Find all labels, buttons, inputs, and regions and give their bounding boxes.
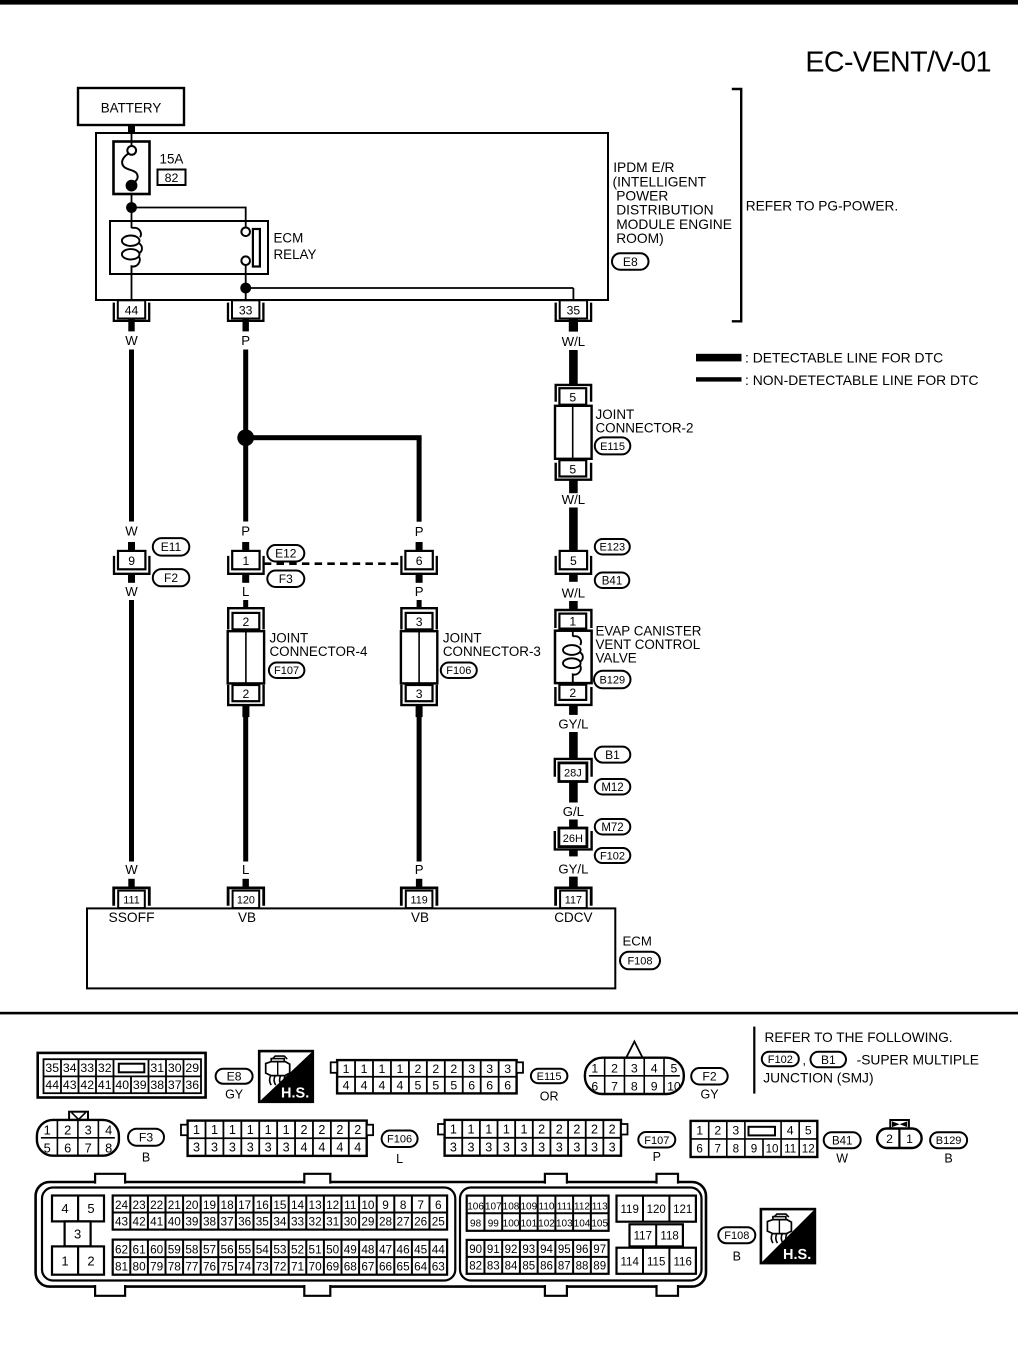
svg-text:F3: F3 <box>139 1131 153 1145</box>
svg-text:32: 32 <box>309 1214 322 1228</box>
svg-text:6: 6 <box>591 1079 598 1093</box>
svg-text:38: 38 <box>203 1214 217 1228</box>
svg-text:F102: F102 <box>768 1054 793 1066</box>
svg-text:2: 2 <box>556 1122 563 1136</box>
svg-text:6: 6 <box>504 1079 511 1093</box>
svg-text:3: 3 <box>468 1140 475 1154</box>
svg-text:118: 118 <box>660 1231 678 1243</box>
svg-text:95: 95 <box>558 1244 571 1256</box>
top border bar <box>0 0 1018 5</box>
stub below connector 5 <box>569 574 578 582</box>
svg-text:70: 70 <box>309 1259 323 1273</box>
svg-text:50: 50 <box>326 1242 340 1256</box>
svg-text:106: 106 <box>467 1201 484 1212</box>
svg-text:107: 107 <box>485 1201 502 1212</box>
svg-text:82: 82 <box>165 171 179 185</box>
joint connector-4 <box>228 608 264 705</box>
svg-text:110: 110 <box>539 1201 555 1212</box>
svg-text:B1: B1 <box>821 1053 836 1067</box>
svg-text:38: 38 <box>150 1078 164 1092</box>
stub below connector 9 <box>128 574 135 583</box>
svg-text:6: 6 <box>486 1079 493 1093</box>
svg-text:71: 71 <box>291 1259 304 1273</box>
svg-text:M12: M12 <box>601 782 623 794</box>
svg-text:BATTERY: BATTERY <box>101 101 162 116</box>
svg-text:13: 13 <box>309 1198 323 1212</box>
svg-text:M72: M72 <box>601 822 623 834</box>
svg-text:1: 1 <box>450 1122 457 1136</box>
svg-text:45: 45 <box>414 1242 428 1256</box>
svg-text:IPDM E/R: IPDM E/R <box>613 160 674 175</box>
svg-text:17: 17 <box>238 1198 251 1212</box>
svg-text:14: 14 <box>291 1198 305 1212</box>
svg-text:41: 41 <box>98 1078 112 1092</box>
svg-text:2: 2 <box>611 1061 618 1075</box>
svg-text:1: 1 <box>247 1123 254 1137</box>
connector ref E115 <box>595 437 631 454</box>
junction dot below fuse <box>126 202 137 213</box>
svg-text:E8: E8 <box>623 255 638 269</box>
svg-text:6: 6 <box>435 1198 442 1212</box>
ECM view grid 62-44 / 81-63 <box>113 1240 447 1275</box>
svg-text:120: 120 <box>237 895 255 907</box>
svg-text:5: 5 <box>570 554 577 568</box>
svg-text:CONNECTOR-4: CONNECTOR-4 <box>270 644 369 659</box>
connector ref F2 <box>153 569 190 586</box>
wire P col2 upper <box>243 350 248 522</box>
pin 35 (IPDM) <box>556 300 591 331</box>
svg-text:47: 47 <box>379 1242 392 1256</box>
svg-text:8: 8 <box>105 1140 112 1155</box>
svg-text:34: 34 <box>63 1061 77 1075</box>
svg-text:2: 2 <box>569 686 576 700</box>
svg-text:51: 51 <box>309 1242 322 1256</box>
stub below connector 6 <box>416 574 423 583</box>
refer bracket <box>732 89 741 321</box>
svg-text:10: 10 <box>667 1079 681 1093</box>
svg-text:16: 16 <box>256 1198 270 1212</box>
svg-text:W: W <box>125 862 138 877</box>
stub below JC-4 <box>242 705 249 717</box>
svg-text:2: 2 <box>243 615 250 629</box>
connector ref F107 (view) <box>638 1132 675 1148</box>
svg-text:4: 4 <box>336 1141 343 1155</box>
svg-text:44: 44 <box>432 1242 446 1256</box>
svg-text:64: 64 <box>414 1259 428 1273</box>
svg-text:59: 59 <box>168 1242 181 1256</box>
svg-text:E123: E123 <box>599 542 625 554</box>
svg-text:121: 121 <box>673 1204 692 1216</box>
svg-text:35: 35 <box>256 1214 270 1228</box>
svg-text:113: 113 <box>592 1201 608 1212</box>
pin 119 (ECM) <box>401 888 437 908</box>
svg-text:W/L: W/L <box>562 586 585 601</box>
relay coil <box>122 221 142 274</box>
wire G/L col4 <box>569 820 578 829</box>
svg-text:2: 2 <box>714 1123 721 1137</box>
pin 120 (ECM) <box>228 888 264 908</box>
svg-text:5: 5 <box>450 1079 457 1093</box>
svg-text:H.S.: H.S. <box>783 1247 811 1263</box>
ECM view grid 90-97 / 82-89 <box>467 1240 609 1274</box>
svg-text:53: 53 <box>273 1242 287 1256</box>
svg-text:25: 25 <box>432 1214 446 1228</box>
svg-text:7: 7 <box>611 1079 618 1093</box>
fuse 15A 82 <box>114 142 150 195</box>
svg-text:30: 30 <box>344 1214 358 1228</box>
connector view B129 (2-pin) <box>877 1120 922 1148</box>
svg-text:F108: F108 <box>627 955 652 967</box>
svg-text:7: 7 <box>85 1140 92 1155</box>
svg-text:1: 1 <box>503 1122 510 1136</box>
stub below 28J <box>569 782 578 803</box>
svg-text:48: 48 <box>361 1242 375 1256</box>
svg-text:GY/L: GY/L <box>558 862 588 877</box>
svg-text:5: 5 <box>87 1201 94 1216</box>
svg-text:3: 3 <box>732 1123 739 1137</box>
wire P col3 <box>417 600 422 608</box>
svg-text:CONNECTOR-3: CONNECTOR-3 <box>443 644 541 659</box>
svg-text:66: 66 <box>379 1259 393 1273</box>
evap canister vent control valve <box>555 610 592 705</box>
svg-text:3: 3 <box>74 1227 81 1242</box>
svg-text:W/L: W/L <box>562 334 585 349</box>
svg-text:P: P <box>415 584 424 599</box>
connector ref F3 <box>267 571 304 588</box>
svg-text:94: 94 <box>540 1244 553 1256</box>
svg-text:4: 4 <box>105 1122 112 1137</box>
svg-text:1: 1 <box>229 1123 236 1137</box>
svg-text:96: 96 <box>576 1244 589 1256</box>
svg-text:1: 1 <box>243 554 250 568</box>
connector ref E8 (IPDM) <box>612 253 649 270</box>
svg-text:P: P <box>241 333 250 348</box>
svg-text:3: 3 <box>283 1141 290 1155</box>
svg-text:12: 12 <box>802 1143 815 1156</box>
connector view F106 grid <box>181 1121 373 1156</box>
pin 33 (IPDM) <box>228 300 263 331</box>
svg-text:100: 100 <box>503 1219 520 1230</box>
svg-text:2: 2 <box>64 1122 71 1137</box>
svg-text:58: 58 <box>185 1242 199 1256</box>
wire fuse to junction <box>131 194 133 207</box>
wire junction to pin 35 <box>246 287 574 289</box>
svg-text:2: 2 <box>336 1123 343 1137</box>
connector ref F102 (smj note) <box>762 1052 799 1067</box>
ECM connector view outer shell <box>36 1182 706 1287</box>
junction dot col2 <box>237 429 254 446</box>
svg-text:79: 79 <box>150 1259 163 1273</box>
stub into connector 1 <box>242 542 249 552</box>
wire GY/L col4 <box>569 732 578 758</box>
connector ref E123 <box>595 539 630 555</box>
ECM view grid 24-6 / 43-25 <box>113 1196 447 1230</box>
svg-text:P: P <box>415 524 424 539</box>
connector ref B1 <box>595 747 631 763</box>
svg-text:56: 56 <box>221 1242 235 1256</box>
svg-text:3: 3 <box>247 1141 254 1155</box>
svg-text:116: 116 <box>674 1256 692 1268</box>
svg-text:23: 23 <box>133 1198 147 1212</box>
svg-text:3: 3 <box>265 1141 272 1155</box>
svg-text:2: 2 <box>886 1132 893 1146</box>
svg-text:61: 61 <box>133 1242 146 1256</box>
svg-text:114: 114 <box>621 1256 640 1268</box>
wire relay contact to pin 33 <box>245 265 247 301</box>
svg-text:43: 43 <box>63 1078 77 1092</box>
stub below valve <box>569 705 578 715</box>
connector ref B41 <box>595 573 630 589</box>
svg-text:36: 36 <box>185 1078 199 1092</box>
svg-text:5: 5 <box>569 462 576 476</box>
connector view E115 grid <box>331 1060 523 1093</box>
svg-text:60: 60 <box>150 1242 164 1256</box>
svg-text:31: 31 <box>326 1214 339 1228</box>
svg-text:104: 104 <box>574 1219 591 1230</box>
svg-text:111: 111 <box>557 1201 573 1212</box>
wire junction to relay contact (branch right) <box>132 207 246 209</box>
svg-text:39: 39 <box>185 1214 198 1228</box>
svg-text:F2: F2 <box>702 1070 716 1084</box>
svg-text:57: 57 <box>203 1242 216 1256</box>
svg-text:-SUPER MULTIPLE: -SUPER MULTIPLE <box>857 1053 979 1068</box>
ECM view left shell <box>42 1188 455 1281</box>
battery <box>78 88 184 125</box>
svg-text:11: 11 <box>784 1143 796 1156</box>
svg-text:3: 3 <box>450 1140 457 1154</box>
svg-text:108: 108 <box>503 1201 520 1212</box>
svg-text:2: 2 <box>414 1062 421 1076</box>
svg-text:3: 3 <box>591 1140 598 1154</box>
svg-text:ECM: ECM <box>623 934 652 949</box>
svg-text:5: 5 <box>805 1123 812 1137</box>
svg-text:W: W <box>125 524 138 539</box>
svg-text:2: 2 <box>301 1123 308 1137</box>
svg-text:1: 1 <box>265 1123 272 1137</box>
svg-text:3: 3 <box>211 1141 218 1155</box>
svg-text:1: 1 <box>379 1062 386 1076</box>
svg-text:3: 3 <box>573 1140 580 1154</box>
svg-text:CDCV: CDCV <box>554 910 592 925</box>
svg-text:E11: E11 <box>161 540 182 554</box>
svg-text:1: 1 <box>569 615 576 629</box>
svg-text:10: 10 <box>361 1198 375 1212</box>
svg-text:3: 3 <box>468 1062 475 1076</box>
svg-text:4: 4 <box>397 1079 404 1093</box>
svg-text:E115: E115 <box>537 1071 562 1083</box>
svg-text:2: 2 <box>591 1122 598 1136</box>
svg-text:9: 9 <box>128 554 135 568</box>
svg-text:F106: F106 <box>446 665 471 677</box>
svg-text:4: 4 <box>787 1123 794 1137</box>
connector ref F102 <box>595 848 631 863</box>
svg-text:27: 27 <box>397 1214 410 1228</box>
svg-text:F3: F3 <box>279 572 293 586</box>
svg-text:MODULE ENGINE: MODULE ENGINE <box>616 217 732 232</box>
svg-text:90: 90 <box>469 1244 482 1256</box>
svg-text:GY/L: GY/L <box>558 717 588 732</box>
svg-text:83: 83 <box>487 1261 500 1273</box>
ECM box <box>87 908 615 988</box>
svg-text:62: 62 <box>115 1242 128 1256</box>
svg-text:97: 97 <box>593 1244 606 1256</box>
svg-text:5: 5 <box>670 1061 677 1075</box>
svg-text:3: 3 <box>193 1141 200 1155</box>
svg-text:3: 3 <box>631 1061 638 1075</box>
connector 5 (E123/B41) <box>556 551 591 574</box>
svg-text:3: 3 <box>416 615 423 629</box>
svg-text:81: 81 <box>115 1259 128 1273</box>
svg-text:1: 1 <box>906 1132 913 1146</box>
wire W col1 upper <box>129 350 134 522</box>
svg-text:CONNECTOR-2: CONNECTOR-2 <box>596 421 694 436</box>
svg-text:101: 101 <box>520 1219 537 1230</box>
svg-text:: NON-DETECTABLE LINE FOR DTC: : NON-DETECTABLE LINE FOR DTC <box>745 372 979 388</box>
ECM view grid 117 118 <box>630 1224 683 1246</box>
svg-text:4: 4 <box>61 1201 68 1216</box>
svg-text:3: 3 <box>85 1122 92 1137</box>
svg-text:88: 88 <box>576 1261 589 1273</box>
svg-text:8: 8 <box>631 1079 638 1093</box>
ECM view right shell <box>460 1188 702 1281</box>
svg-text:4: 4 <box>361 1079 368 1093</box>
svg-text:33: 33 <box>291 1214 305 1228</box>
svg-text:B129: B129 <box>936 1135 962 1147</box>
svg-text:P: P <box>241 524 250 539</box>
svg-text:55: 55 <box>238 1242 252 1256</box>
svg-text:30: 30 <box>168 1061 182 1075</box>
svg-text:2: 2 <box>318 1123 325 1137</box>
relay contact circles and bar <box>241 228 260 267</box>
svg-text:33: 33 <box>239 303 253 317</box>
svg-text:77: 77 <box>185 1259 198 1273</box>
svg-text:42: 42 <box>133 1214 146 1228</box>
svg-text:32: 32 <box>98 1061 112 1075</box>
joint connector-3 <box>401 608 437 705</box>
svg-text:B: B <box>733 1250 741 1264</box>
svg-text:36: 36 <box>238 1214 252 1228</box>
svg-text:39: 39 <box>133 1078 147 1092</box>
svg-text:12: 12 <box>326 1198 339 1212</box>
stub into pin 111 <box>128 879 134 888</box>
junction dot below relay <box>240 283 251 294</box>
svg-text:82: 82 <box>469 1261 482 1273</box>
svg-text:9: 9 <box>651 1079 658 1093</box>
svg-text:119: 119 <box>410 895 427 907</box>
svg-text:ECM: ECM <box>274 230 304 245</box>
svg-text:33: 33 <box>80 1061 94 1075</box>
fuse number box 82 <box>158 170 186 186</box>
connector ref F108 (ECM) <box>620 952 660 970</box>
svg-text:4: 4 <box>651 1061 658 1075</box>
svg-text:112: 112 <box>574 1201 590 1212</box>
svg-text:54: 54 <box>256 1242 270 1256</box>
svg-text:37: 37 <box>221 1214 234 1228</box>
refer-to-following divider <box>753 1027 755 1094</box>
svg-text:29: 29 <box>361 1214 374 1228</box>
svg-text:GY: GY <box>700 1088 719 1102</box>
svg-text:115: 115 <box>647 1256 665 1268</box>
svg-text:119: 119 <box>621 1204 639 1216</box>
svg-text:89: 89 <box>593 1261 606 1273</box>
svg-text:3: 3 <box>503 1140 510 1154</box>
legend detectable line <box>696 350 943 366</box>
svg-text:1: 1 <box>44 1122 51 1137</box>
svg-text:1: 1 <box>520 1122 527 1136</box>
svg-text:35: 35 <box>567 303 581 317</box>
connector ref B41 (view) <box>824 1132 861 1148</box>
svg-text:5: 5 <box>569 390 576 404</box>
svg-text:8: 8 <box>733 1143 739 1156</box>
separator line <box>0 1012 1018 1015</box>
svg-text:29: 29 <box>185 1061 199 1075</box>
svg-text:28: 28 <box>379 1214 393 1228</box>
connector ref F106 (view) <box>382 1131 418 1148</box>
svg-text:POWER: POWER <box>616 189 668 204</box>
svg-text:49: 49 <box>344 1242 357 1256</box>
H.S. mark 2 <box>761 1209 815 1263</box>
svg-text:20: 20 <box>185 1198 199 1212</box>
svg-text:2: 2 <box>609 1122 616 1136</box>
svg-text:3: 3 <box>229 1141 236 1155</box>
svg-text:2: 2 <box>87 1254 94 1269</box>
connector 9 (E11/F2) <box>114 551 149 574</box>
svg-text:24: 24 <box>115 1198 129 1212</box>
svg-text:73: 73 <box>256 1259 270 1273</box>
svg-text:34: 34 <box>273 1214 287 1228</box>
svg-text:3: 3 <box>485 1140 492 1154</box>
svg-text:67: 67 <box>361 1259 374 1273</box>
joint connector-2 <box>555 385 592 480</box>
svg-text:6: 6 <box>64 1140 71 1155</box>
wire into pin 117 <box>569 877 578 887</box>
svg-text:W: W <box>836 1152 848 1166</box>
svg-text:103: 103 <box>556 1219 573 1230</box>
ECM view small grid 4 5 / 3 / 1 2 <box>52 1196 104 1275</box>
svg-text:40: 40 <box>168 1214 182 1228</box>
svg-text:11: 11 <box>344 1198 356 1212</box>
svg-text:E115: E115 <box>600 441 625 453</box>
svg-text:15: 15 <box>273 1198 287 1212</box>
connector ref B1 (smj note) <box>811 1052 847 1068</box>
svg-text:F2: F2 <box>164 571 178 585</box>
connector ref E11 <box>153 538 190 556</box>
svg-text:18: 18 <box>221 1198 235 1212</box>
svg-text:15A: 15A <box>160 152 184 167</box>
svg-text:G/L: G/L <box>563 804 584 819</box>
svg-text:2: 2 <box>450 1062 457 1076</box>
wire relay coil to pin 44 <box>131 274 133 301</box>
svg-text:19: 19 <box>203 1198 216 1212</box>
svg-text:69: 69 <box>326 1259 339 1273</box>
svg-text:L: L <box>242 584 249 599</box>
stub into pin 119 <box>416 879 422 888</box>
svg-text:SSOFF: SSOFF <box>109 910 155 925</box>
svg-text:21: 21 <box>168 1198 181 1212</box>
svg-text:3: 3 <box>520 1140 527 1154</box>
svg-text:76: 76 <box>203 1259 217 1273</box>
svg-text:35: 35 <box>45 1061 59 1075</box>
smj pass-through 26H <box>555 828 592 849</box>
svg-text:4: 4 <box>301 1141 308 1155</box>
svg-text:E12: E12 <box>275 547 297 561</box>
svg-text:1: 1 <box>211 1123 218 1137</box>
connector view B41 grid <box>691 1121 818 1157</box>
relay ECM RELAY box <box>110 221 268 274</box>
stub below JC-2 <box>569 480 578 494</box>
svg-text:109: 109 <box>520 1201 537 1212</box>
wire L col2 lower <box>243 717 248 862</box>
